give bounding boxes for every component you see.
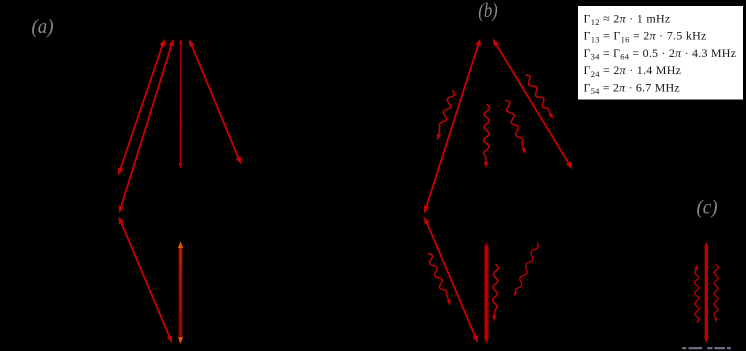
wavy decay W6 [492, 265, 498, 322]
arrow A3 level1-level4 thin [179, 39, 183, 169]
wavy decay W4 [526, 75, 553, 119]
arrow A1 level1-level3 [118, 39, 165, 176]
legend box with decay rates [578, 6, 743, 100]
wavy CW2 [714, 265, 718, 323]
wavy decay W7 [514, 243, 538, 297]
arrow A6 clock transition thick vertical [178, 241, 183, 344]
svg-text:Γ34 = Γ64 = 0.5 · 2π · 4.3 MHz: Γ34 = Γ64 = 0.5 · 2π · 4.3 MHz [584, 46, 737, 62]
wavy decay W2 [484, 105, 490, 169]
wavy decay W5 [429, 254, 451, 306]
svg-text:(b): (b) [478, 0, 498, 22]
arrow A4 level1-level6 [189, 39, 241, 165]
svg-text:(a): (a) [32, 16, 54, 38]
arrow B6 thick vertical [484, 242, 489, 344]
svg-text:(c): (c) [697, 197, 718, 219]
arrow B1 level1-level2 [424, 39, 481, 214]
panel label (c) [697, 197, 718, 219]
svg-text:Γ13 = Γ16 = 2π · 7.5 kHz: Γ13 = Γ16 = 2π · 7.5 kHz [584, 29, 707, 45]
wavy decay W3 [506, 101, 525, 155]
panel label (b) [478, 0, 498, 22]
arrow B5 level2-ground [424, 217, 478, 343]
arrow C1 thick vertical [704, 242, 709, 344]
arrow B2 level1-level6 [493, 39, 573, 170]
wavy CW1 head up [694, 264, 699, 322]
watermark text bottom right [682, 347, 731, 349]
arrow A2 level1-level2 [119, 39, 174, 214]
arrow A5 level2-ground [119, 217, 173, 344]
panel label (a) [32, 16, 54, 38]
wavy decay W1 [437, 91, 455, 141]
